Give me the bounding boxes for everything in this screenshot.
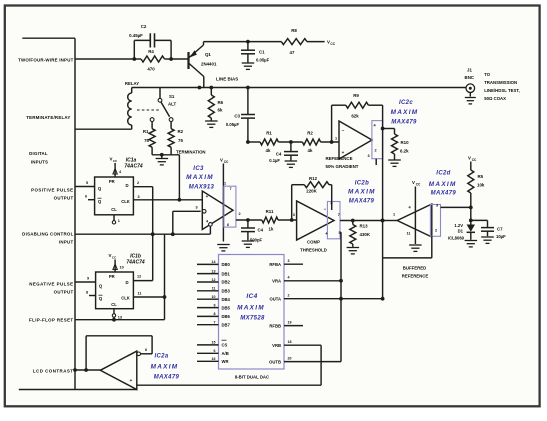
svg-text:DB3: DB3 [222,289,231,294]
svg-text:ICL8069: ICL8069 [448,236,465,241]
svg-text:V: V [412,180,415,185]
svg-text:R2: R2 [307,131,313,136]
svg-text:DIGITAL: DIGITAL [29,151,48,156]
svg-text:470: 470 [147,67,155,72]
svg-text:CL: CL [111,207,117,212]
svg-text:3: 3 [367,154,369,158]
svg-text:R13: R13 [360,224,369,229]
svg-text:75: 75 [178,138,183,143]
svg-text:MAX479: MAX479 [391,120,417,126]
svg-text:1: 1 [224,182,226,186]
svg-text:12: 12 [212,278,216,282]
svg-text:TWO/FOUR-WIRE INPUT: TWO/FOUR-WIRE INPUT [18,57,73,62]
svg-text:50% GRADIENT: 50% GRADIENT [326,164,359,169]
svg-text:IC2c: IC2c [399,100,413,106]
svg-text:REFERENCE: REFERENCE [325,156,352,161]
svg-text:3: 3 [195,206,197,210]
svg-text:7: 7 [338,213,340,217]
svg-text:LINE/HDSL TEST,: LINE/HDSL TEST, [484,88,520,93]
svg-text:MAXIM: MAXIM [186,174,214,181]
svg-text:74AC74: 74AC74 [124,164,143,170]
svg-text:R5: R5 [478,174,484,179]
svg-text:220K: 220K [306,189,317,194]
svg-text:11: 11 [212,287,216,291]
svg-text:DB1: DB1 [222,271,231,276]
svg-text:8: 8 [86,291,88,295]
svg-text:1: 1 [118,219,120,223]
svg-text:COMP: COMP [307,240,320,245]
svg-text:CL: CL [111,302,117,307]
svg-text:CC: CC [416,182,421,186]
svg-text:R4: R4 [148,49,154,54]
svg-text:CC: CC [330,42,335,46]
svg-text:TERMINATION: TERMINATION [176,150,206,155]
svg-text:3: 3 [138,195,140,199]
svg-text:D: D [125,183,128,188]
svg-text:12: 12 [137,275,141,279]
svg-text:47: 47 [290,50,295,55]
svg-text:WR: WR [222,359,229,364]
svg-text:6.2k: 6.2k [400,149,409,154]
svg-text:20: 20 [288,356,292,360]
svg-text:D1: D1 [458,229,464,234]
svg-text:7: 7 [214,321,216,325]
svg-text:CLK: CLK [121,296,130,301]
svg-text:R9: R9 [353,93,359,98]
svg-text:2: 2 [239,212,241,216]
svg-text:IC3: IC3 [193,166,204,172]
svg-text:POSITIVE PULSE: POSITIVE PULSE [31,188,73,193]
svg-text:0.05µF: 0.05µF [256,58,270,63]
svg-text:3: 3 [293,213,295,217]
svg-text:11: 11 [406,232,410,236]
svg-text:11: 11 [138,292,142,296]
svg-text:MAX479: MAX479 [154,375,180,381]
svg-text:6: 6 [85,195,87,199]
svg-text:IC2b: IC2b [355,181,369,187]
svg-text:NEGATIVE PULSE: NEGATIVE PULSE [29,282,73,287]
svg-text:TERMINATE/RELAY: TERMINATE/RELAY [26,115,70,120]
svg-text:+: + [342,150,345,155]
svg-text:INPUTS: INPUTS [31,160,48,165]
svg-text:6: 6 [330,202,332,206]
svg-text:DB6: DB6 [222,314,231,319]
svg-text:DISABLING CONTROL: DISABLING CONTROL [22,232,73,237]
svg-text:3: 3 [436,204,438,208]
svg-text:8: 8 [214,312,216,316]
svg-text:C1: C1 [259,50,265,55]
svg-text:0.1µF: 0.1µF [269,158,280,163]
svg-text:1k: 1k [269,227,274,232]
svg-text:OUTPUT: OUTPUT [54,290,74,295]
svg-text:4: 4 [288,276,290,280]
svg-text:50Ω COAX: 50Ω COAX [484,96,506,101]
svg-text:C4: C4 [276,152,282,157]
svg-text:IC4: IC4 [246,293,257,300]
svg-text:62k: 62k [351,114,359,119]
svg-text:DB0: DB0 [222,262,231,267]
svg-text:6: 6 [227,223,229,227]
svg-text:J1: J1 [467,68,472,73]
svg-text:2N4401: 2N4401 [201,62,217,67]
svg-text:R12: R12 [309,176,318,181]
svg-text:1.2V: 1.2V [454,223,463,228]
svg-text:OUTB: OUTB [269,359,281,364]
svg-text:MX7528: MX7528 [240,316,265,322]
svg-text:BUFFERED: BUFFERED [403,266,426,271]
svg-text:TRANSMISSION: TRANSMISSION [484,80,517,85]
svg-text:R11: R11 [266,209,274,214]
svg-text:10µF: 10µF [496,234,506,239]
svg-text:500pF: 500pF [250,238,263,243]
svg-text:DB5: DB5 [222,305,231,310]
svg-text:CLK: CLK [121,199,130,204]
svg-text:74AC74: 74AC74 [126,260,145,266]
svg-text:+: + [130,378,133,383]
svg-text:S1: S1 [169,94,175,99]
svg-text:PR: PR [109,179,115,184]
svg-text:15: 15 [212,341,216,345]
svg-text:THRESHOLD: THRESHOLD [300,248,327,253]
svg-text:RFBB: RFBB [269,323,281,328]
svg-text:REFERENCE: REFERENCE [402,274,429,279]
svg-text:Q1: Q1 [205,52,211,57]
svg-text:75: 75 [144,138,149,143]
svg-text:R6: R6 [218,100,224,105]
svg-text:19: 19 [288,320,292,324]
svg-text:OUTPUT: OUTPUT [54,196,74,201]
svg-text:−: − [342,128,345,133]
svg-text:R1: R1 [143,129,149,134]
svg-text:VRB: VRB [272,343,281,348]
svg-text:8-BIT DUAL DAC: 8-BIT DUAL DAC [235,375,269,380]
svg-text:1: 1 [335,137,337,141]
svg-text:18: 18 [288,340,292,344]
svg-text:3: 3 [288,259,290,263]
svg-text:BNC: BNC [465,75,475,80]
svg-text:0.05µF: 0.05µF [226,122,240,127]
svg-text:C4: C4 [258,228,264,233]
svg-text:ALT: ALT [168,102,177,107]
svg-text:7: 7 [229,187,231,191]
svg-text:2: 2 [137,181,139,185]
svg-text:MAXIM: MAXIM [348,189,376,196]
svg-text:MAXIM: MAXIM [151,364,179,371]
svg-text:6: 6 [145,348,147,352]
svg-text:V: V [468,156,471,161]
svg-text:LCD CONTRAST: LCD CONTRAST [33,369,74,374]
svg-text:13: 13 [118,316,122,320]
svg-text:V: V [220,158,223,163]
svg-text:10k: 10k [477,183,485,188]
svg-text:R8: R8 [291,28,297,33]
svg-text:OUTA: OUTA [269,297,281,302]
svg-text:2: 2 [435,229,437,233]
svg-text:MAX479: MAX479 [431,191,457,197]
svg-text:6k: 6k [218,108,223,113]
svg-text:430K: 430K [360,232,371,237]
svg-text:INPUT: INPUT [59,240,74,245]
svg-text:1: 1 [393,213,395,217]
svg-text:2: 2 [374,149,376,153]
svg-text:6: 6 [214,349,216,353]
svg-text:9: 9 [87,277,89,281]
svg-text:DB2: DB2 [222,280,231,285]
svg-text:VRA: VRA [272,279,281,284]
svg-text:+: + [206,194,209,199]
svg-text:9: 9 [214,303,216,307]
svg-text:CC: CC [224,160,229,164]
svg-text:FLIP-FLOP RESET: FLIP-FLOP RESET [29,318,73,323]
svg-text:MAXIM: MAXIM [391,109,419,116]
svg-text:MAX479: MAX479 [349,199,375,205]
svg-text:RFBA: RFBA [269,262,281,267]
svg-text:4k: 4k [266,148,271,153]
svg-text:MAXIM: MAXIM [237,305,265,312]
svg-text:14: 14 [212,260,216,264]
svg-text:RELAY: RELAY [125,81,139,86]
svg-text:DB4: DB4 [222,297,231,302]
svg-text:MAXIM: MAXIM [429,181,457,188]
svg-text:A/B: A/B [222,351,229,356]
svg-text:CC: CC [472,158,477,162]
svg-text:13: 13 [212,269,216,273]
svg-text:2: 2 [288,294,290,298]
svg-text:−: − [324,207,327,212]
svg-text:LINE BIAS: LINE BIAS [216,77,238,82]
svg-text:PR: PR [109,274,115,279]
svg-text:IC2a: IC2a [154,354,168,360]
svg-text:C7: C7 [497,227,503,232]
svg-text:4k: 4k [308,148,313,153]
svg-text:10: 10 [120,266,124,270]
svg-text:R2: R2 [178,129,184,134]
svg-text:C2: C2 [141,24,147,29]
svg-text:R10: R10 [401,140,410,145]
svg-text:TO: TO [484,72,491,77]
svg-text:R1: R1 [266,131,272,136]
svg-text:+: + [325,231,328,236]
svg-text:MAX913: MAX913 [189,184,215,190]
svg-text:5: 5 [86,181,88,185]
svg-text:C3: C3 [234,114,240,119]
svg-text:10: 10 [212,295,216,299]
svg-text:16: 16 [212,357,216,361]
svg-text:IC2d: IC2d [436,171,450,177]
svg-text:D: D [125,280,128,285]
svg-text:CS: CS [222,343,228,348]
svg-text:0.45µF: 0.45µF [129,33,143,38]
svg-text:DB7: DB7 [222,322,231,327]
